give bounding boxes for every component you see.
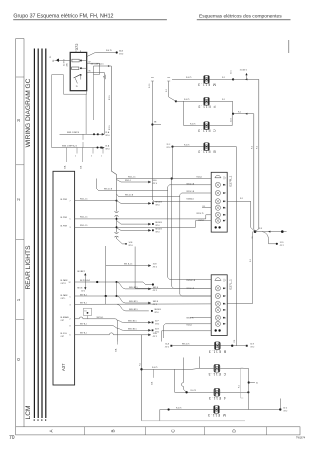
- relay coil: [72, 59, 87, 62]
- svg-text:C E11.3: C E11.3: [197, 129, 215, 133]
- svg-text:/37.2: /37.2: [81, 271, 85, 273]
- long vertical wire x111.3: [109, 66, 116, 175]
- svg-text:BL PARK: BL PARK: [61, 294, 69, 297]
- svg-text:R-1: R-1: [239, 385, 241, 388]
- svg-text:SE16 B2.5: SE16 B2.5: [129, 301, 138, 303]
- svg-text:D1: D1: [85, 310, 87, 312]
- svg-text:R-0.75: R-0.75: [190, 123, 195, 125]
- svg-text:R87-0.5 B: R87-0.5 B: [187, 191, 195, 193]
- svg-text:R141-1: R141-1: [199, 220, 205, 222]
- svg-text:F E11.3: F E11.3: [198, 104, 216, 108]
- svg-text:7: 7: [225, 220, 226, 222]
- svg-text:R-1: R-1: [240, 198, 243, 200]
- fanout branch y322.4: [117, 320, 159, 325]
- svg-text:31 A: 31 A: [105, 131, 110, 134]
- LCM pin wire row y227.3: [70, 225, 196, 229]
- svg-text:2: 2: [225, 184, 226, 186]
- branch terminal row y224.1: [117, 221, 163, 228]
- E27L pin wire labels: [187, 280, 196, 327]
- svg-text:R-0.75: R-0.75: [186, 77, 191, 79]
- svg-text:OUT L: OUT L: [61, 298, 66, 300]
- svg-text:31 C: 31 C: [167, 144, 171, 146]
- svg-text:R141-1: R141-1: [125, 180, 131, 182]
- svg-text:/37.0: /37.0: [165, 347, 169, 349]
- svg-text:BL PARK: BL PARK: [61, 279, 69, 282]
- svg-text:OUT: OUT: [61, 320, 65, 322]
- svg-text:31 E: 31 E: [153, 264, 158, 266]
- svg-text:SE16 B: SE16 B: [155, 228, 162, 230]
- stub wires below node row: [64, 142, 103, 169]
- svg-text:R-0.75: R-0.75: [184, 99, 189, 101]
- svg-text:M E11.3: M E11.3: [207, 413, 226, 417]
- wire tail lamp row 2: [175, 99, 233, 102]
- svg-text:/37.0: /37.0: [105, 149, 109, 151]
- svg-text:31: 31: [50, 55, 52, 58]
- lower-left drop vertical x161.7: [161, 331, 163, 342]
- svg-text:SE16 B: SE16 B: [155, 222, 162, 224]
- svg-text:R87-0.75: R87-0.75: [182, 344, 189, 346]
- svg-text:31A: 31A: [64, 165, 67, 169]
- svg-text:R-0.75: R-0.75: [152, 367, 157, 369]
- wire end node 14: [117, 239, 134, 247]
- svg-text:31B: 31B: [81, 165, 83, 169]
- power bus line 1: [33, 49, 35, 419]
- stub below junction wire: [151, 369, 153, 385]
- svg-text:SE16 B2.5: SE16 B2.5: [128, 328, 137, 330]
- svg-text:58 E: 58 E: [153, 180, 158, 182]
- E27L pin number labels: [225, 280, 226, 326]
- E27R row6 lamp: [215, 212, 225, 217]
- svg-text:R-1: R-1: [257, 146, 259, 149]
- svg-text:SE16 B: SE16 B: [154, 309, 161, 311]
- svg-text:A: A: [49, 428, 54, 432]
- svg-text:5: 5: [225, 310, 226, 312]
- wire tail lamp row 1: [172, 77, 233, 79]
- fanout branch y303: [115, 295, 158, 306]
- svg-text:12: 12: [69, 282, 71, 284]
- svg-text:1: 1: [225, 280, 226, 282]
- svg-text:R-1.5: R-1.5: [149, 84, 151, 88]
- svg-text:/37.0: /37.0: [119, 53, 123, 55]
- vertical wire x93.4: [93, 75, 99, 120]
- svg-text:R-0.75: R-0.75: [184, 144, 189, 146]
- svg-text:5: 5: [91, 156, 92, 158]
- svg-text:R-1: R-1: [139, 363, 141, 366]
- svg-text:7: 7: [70, 200, 71, 202]
- svg-text:31 G: 31 G: [283, 408, 287, 410]
- E27L row7 lamp: [215, 321, 225, 326]
- fanout branch y330.3: [117, 328, 159, 333]
- E27R pin number labels: [225, 177, 226, 222]
- svg-text:SE16 B: SE16 B: [155, 201, 162, 203]
- E27L row3 lamp: [215, 293, 225, 298]
- E27R row4 lamp: [215, 199, 225, 204]
- svg-text:SE7 B-1: SE7 B-1: [97, 317, 104, 319]
- harness bracket lower right: [241, 368, 244, 398]
- svg-text:6: 6: [70, 335, 71, 337]
- feeder vertical x199.4: [198, 357, 200, 369]
- svg-text:R-1: R-1: [222, 77, 225, 79]
- lamp E11.3 B lower: [214, 342, 220, 350]
- svg-text:REAR LIGHTS: REAR LIGHTS: [25, 245, 32, 290]
- svg-text:OUT: OUT: [61, 336, 65, 338]
- E27R row7 lamp: [215, 218, 225, 223]
- lamp E11.3 M lower: [214, 406, 220, 414]
- svg-text:B E11.3: B E11.3: [197, 150, 215, 154]
- svg-text:R-1.5: R-1.5: [109, 125, 111, 130]
- svg-text:BL PWR: BL PWR: [61, 226, 68, 228]
- wire lamp row 8: [160, 399, 288, 421]
- E27R pin wire labels: [187, 177, 206, 222]
- right margin mark: [288, 40, 290, 53]
- svg-text:85: 85: [89, 71, 91, 73]
- relay right pin wires to verticals: [87, 61, 105, 134]
- wire node row y134.3: [60, 131, 110, 140]
- crossover vertical x174.6: [174, 369, 176, 392]
- svg-text:/37.0: /37.0: [155, 225, 159, 227]
- svg-text:R-1: R-1: [250, 259, 252, 262]
- svg-text:2: 2: [70, 319, 71, 321]
- svg-text:B E11.3: B E11.3: [208, 349, 226, 353]
- svg-text:2: 2: [75, 156, 76, 158]
- E27R row1 bulb symbol: [215, 175, 224, 179]
- fanout branch y289: [115, 281, 158, 292]
- svg-text:R-1: R-1: [203, 206, 206, 208]
- svg-text:R87-0.5 B: R87-0.5 B: [104, 189, 113, 191]
- svg-text:/37.2: /37.2: [250, 347, 254, 349]
- right vertical lower: [248, 368, 258, 409]
- svg-text:31A: 31A: [114, 348, 117, 352]
- svg-text:/37.2: /37.2: [153, 336, 157, 338]
- control unit A37 body: [53, 171, 75, 385]
- feeder row y196.5: [117, 194, 180, 197]
- svg-text:SB COMP B-1.5: SB COMP B-1.5: [91, 64, 104, 66]
- svg-text:SE7 B-1: SE7 B-1: [80, 323, 87, 325]
- svg-text:BL BRAKE: BL BRAKE: [61, 316, 70, 319]
- feeder vertical x168.7: [166, 81, 176, 101]
- svg-text:/37.2: /37.2: [243, 70, 247, 72]
- feeder drop x96.5 to ladder: [97, 179, 168, 191]
- svg-text:SE7 B-1: SE7 B-1: [80, 303, 87, 305]
- svg-text:31B: 31B: [151, 381, 153, 385]
- svg-text:4: 4: [225, 303, 226, 305]
- E27L row2 lamp: [215, 286, 225, 291]
- svg-text:R-B5B2-1: R-B5B2-1: [187, 198, 194, 200]
- svg-text:R141-1.5: R141-1.5: [128, 176, 135, 178]
- wire node row y147.7: [52, 145, 110, 151]
- LCM pin wire row y334.8: [70, 332, 158, 352]
- svg-text:1: 1: [101, 156, 102, 158]
- svg-text:R141-1: R141-1: [187, 325, 193, 327]
- lamp E11.3 F: [204, 97, 210, 105]
- bottom ruler row: [16, 427, 300, 435]
- LCM pin wire row y296.9: [70, 295, 212, 305]
- svg-text:SE16 B2.5: SE16 B2.5: [128, 320, 137, 322]
- relay pin stub top: [75, 50, 77, 52]
- E27L row6 lamp: [215, 315, 225, 320]
- power bus line 2: [37, 49, 39, 419]
- wire row2 to junction 2: [231, 101, 254, 122]
- bus top labels: [50, 55, 59, 62]
- svg-text:WIRING DIAGRAM GC: WIRING DIAGRAM GC: [25, 78, 32, 147]
- svg-text:R-1: R-1: [234, 340, 236, 343]
- svg-text:C E11.3: C E11.3: [208, 372, 226, 376]
- svg-text:3: 3: [70, 227, 71, 229]
- svg-text:31 F: 31 F: [155, 320, 160, 322]
- wire lamp row 6: [142, 367, 249, 369]
- svg-text:30 A: 30 A: [119, 49, 124, 52]
- header left title: [13, 13, 167, 20]
- relay output wire to node 30: [87, 49, 124, 56]
- svg-text:SB31 COMP B: SB31 COMP B: [67, 132, 80, 134]
- svg-text:R-1: R-1: [238, 112, 241, 114]
- svg-text:7: 7: [225, 323, 226, 325]
- bus bottom pin marks: [34, 419, 47, 421]
- right vertical wire A: [258, 79, 260, 229]
- svg-text:14 E: 14 E: [129, 242, 134, 244]
- ground branch curved: [262, 232, 284, 247]
- corner wire from E27R to ground node: [227, 198, 255, 231]
- svg-text:SE1 B: SE1 B: [77, 287, 83, 289]
- svg-text:R-1.5: R-1.5: [109, 95, 111, 100]
- svg-text:3: 3: [225, 193, 226, 195]
- E27R row5 lamp: [215, 205, 225, 210]
- relay left pin wire: [55, 59, 71, 67]
- lamp E11.3 4 lower: [214, 388, 220, 396]
- svg-text:SE POS B-2: SE POS B-2: [80, 280, 90, 282]
- svg-text:206: 206: [66, 63, 68, 66]
- fuse reference arrow up: [77, 271, 86, 282]
- svg-text:372: 372: [74, 43, 79, 50]
- wire tail lamp row 3: [184, 101, 233, 125]
- svg-text:SE1 B-1.5: SE1 B-1.5: [124, 264, 132, 266]
- svg-text:/37.2: /37.2: [153, 290, 157, 292]
- svg-text:R141-1.5: R141-1.5: [80, 198, 87, 200]
- svg-text:R87-0.75: R87-0.75: [197, 213, 204, 215]
- svg-text:3: 3: [70, 305, 71, 307]
- svg-text:E27R_1: E27R_1: [229, 175, 233, 186]
- ground drop to E27L row4: [227, 232, 252, 304]
- right vertical wire B: [253, 114, 255, 229]
- svg-text:BL PWR: BL PWR: [61, 217, 68, 219]
- svg-text:R-1: R-1: [166, 89, 168, 92]
- svg-text:D: D: [232, 429, 237, 433]
- svg-text:/37.0: /37.0: [105, 135, 109, 137]
- feeder from x152.4 down to E27R row4: [152, 132, 154, 201]
- svg-text:R-0.75: R-0.75: [106, 50, 112, 52]
- svg-text:31 A: 31 A: [105, 145, 110, 148]
- svg-text:/37.0: /37.0: [155, 205, 159, 207]
- svg-text:31 F: 31 F: [259, 228, 263, 230]
- svg-text:E27L_1: E27L_1: [229, 279, 233, 290]
- svg-text:4: 4: [225, 201, 226, 203]
- A37 internal pin function labels: [61, 199, 70, 338]
- wire tail lamp row 5: [172, 344, 254, 349]
- svg-text:0: 0: [16, 358, 21, 361]
- relay switch contact: [74, 74, 82, 88]
- top right terminal arrow: [240, 70, 248, 80]
- feeder vertical x152.4: [149, 81, 161, 132]
- svg-text:SE16 B2.5: SE16 B2.5: [129, 287, 138, 289]
- svg-text:3: 3: [225, 296, 226, 298]
- lower cluster feed terminal 31A: [165, 343, 172, 349]
- inter-cluster vertical x167.7: [168, 187, 212, 280]
- svg-text:31 D: 31 D: [280, 242, 284, 244]
- svg-text:8: 8: [70, 325, 71, 327]
- svg-text:5: 5: [70, 297, 71, 299]
- svg-text:/37.0: /37.0: [154, 312, 158, 314]
- connector block E27R body: [211, 172, 227, 232]
- E27R pin wires left: [152, 185, 211, 228]
- svg-text:/37.0: /37.0: [129, 245, 133, 247]
- feeder top ticks: [151, 78, 170, 81]
- wire tail lamp row 4: [166, 144, 236, 346]
- border frame left ruler column: [16, 39, 24, 427]
- E27R row3 lamp: [215, 190, 225, 195]
- node wire y66 with labels: [91, 64, 112, 75]
- svg-text:BL PWR: BL PWR: [61, 199, 68, 201]
- svg-text:2: 2: [225, 288, 226, 290]
- E27L bottom pins: [215, 329, 221, 331]
- svg-text:/37.2: /37.2: [153, 304, 157, 306]
- svg-text:A37: A37: [61, 363, 66, 371]
- svg-text:/37.2: /37.2: [155, 324, 159, 326]
- svg-text:Esquemas elétricos dos compone: Esquemas elétricos dos componentes: [199, 13, 282, 19]
- svg-text:SE1 B: SE1 B: [153, 287, 159, 289]
- branch terminal row y203.4: [117, 201, 163, 207]
- lamp E11.3 M: [204, 76, 210, 84]
- E27R bottom pins: [215, 226, 221, 228]
- inline connector pair upper: [115, 211, 119, 216]
- junction node row1: [232, 78, 234, 80]
- pin stub 14: [104, 75, 106, 80]
- LCM vertical distribution wire x116.5: [116, 175, 118, 239]
- wire from LCM area to E27R row1: [117, 178, 212, 180]
- lamp E11.3 C lower: [214, 364, 220, 372]
- LCM pin wire row y282: [69, 280, 212, 289]
- svg-text:SE7 B-1: SE7 B-1: [80, 295, 87, 297]
- svg-text:5: 5: [225, 207, 226, 209]
- inline connector pair lower: [115, 232, 119, 237]
- svg-text:/37.2: /37.2: [280, 245, 284, 247]
- svg-text:B: B: [111, 429, 116, 432]
- LCM pin wire row y218.9: [70, 217, 206, 221]
- svg-text:N8: N8: [154, 122, 156, 124]
- ground junction node 31: [254, 229, 259, 233]
- svg-text:31 A: 31 A: [165, 343, 169, 346]
- svg-text:R141-0.5 B: R141-0.5 B: [187, 280, 196, 282]
- svg-text:R-0.75: R-0.75: [191, 390, 196, 392]
- svg-text:3: 3: [16, 119, 21, 122]
- svg-text:R87-0.5 B: R87-0.5 B: [187, 184, 195, 186]
- inter-cluster vertical x171.7: [172, 179, 212, 289]
- E27R row2 lamp: [215, 182, 225, 187]
- connector block E27L body: [211, 275, 227, 336]
- svg-text:SB31 COMP B-2.5: SB31 COMP B-2.5: [62, 145, 77, 147]
- E27L row1 bulb symbol: [215, 278, 224, 282]
- svg-text:31 C: 31 C: [231, 70, 233, 74]
- relay 372 body: [70, 52, 87, 90]
- fanout branch y311: [117, 304, 162, 314]
- wire lamp row 7: [175, 390, 250, 393]
- branch terminal row y182: [117, 180, 158, 186]
- LCM pin wire row y325.5: [70, 323, 118, 328]
- svg-text:SE16 B2.5: SE16 B2.5: [129, 309, 138, 311]
- svg-text:SE7 B-1: SE7 B-1: [80, 333, 87, 335]
- svg-text:15: 15: [76, 86, 78, 88]
- svg-text:LCM: LCM: [25, 406, 32, 420]
- svg-text:R87-0.75: R87-0.75: [187, 318, 194, 320]
- svg-text:BL FOG: BL FOG: [61, 333, 68, 335]
- svg-text:/37.0: /37.0: [153, 183, 157, 185]
- svg-text:TW1674: TW1674: [296, 437, 306, 440]
- svg-text:R-1: R-1: [222, 99, 225, 101]
- svg-text:/37.2: /37.2: [153, 267, 157, 269]
- svg-text:14: 14: [104, 76, 106, 78]
- svg-text:C: C: [171, 429, 176, 433]
- svg-text:SE1 B: SE1 B: [153, 301, 159, 303]
- lower cluster main vertical: [139, 335, 142, 421]
- svg-text:R-0.75: R-0.75: [176, 407, 181, 409]
- svg-text:M E11.3: M E11.3: [197, 82, 216, 86]
- svg-text:31 E: 31 E: [155, 328, 160, 330]
- svg-text:1: 1: [225, 177, 226, 179]
- distribution vertical x116.5 lower: [116, 282, 118, 296]
- power bus line 3: [41, 49, 43, 419]
- svg-text:4 E11.3: 4 E11.3: [208, 396, 226, 400]
- power bus line 4: [45, 49, 47, 419]
- LCM pin wire row y200.6: [70, 198, 118, 202]
- svg-text:/37.2: /37.2: [283, 411, 287, 413]
- fanout row y265.6: [106, 246, 158, 295]
- svg-text:/37.2: /37.2: [155, 331, 159, 333]
- ground terminal wire right: [252, 228, 287, 238]
- svg-text:5: 5: [70, 219, 71, 221]
- E27L row4 lamp: [215, 301, 225, 306]
- E27L row5 lamp: [215, 307, 225, 312]
- E27L pin wires left: [162, 324, 212, 331]
- svg-text:Grupo 37 Esquema elétrico FM,: Grupo 37 Esquema elétrico FM, FH, NH12: [13, 13, 113, 19]
- lamp E11.3 C: [204, 122, 210, 130]
- lower cluster bottom wire: [142, 420, 246, 422]
- svg-text:6: 6: [225, 317, 226, 319]
- lamp row4 drop wire: [172, 147, 174, 179]
- svg-text:R141-1.5: R141-1.5: [80, 217, 87, 219]
- relay resistor element: [72, 67, 87, 70]
- lamp E11.3 B: [204, 143, 210, 151]
- svg-text:R87-0.5 B: R87-0.5 B: [125, 195, 134, 197]
- header right title: [197, 13, 291, 20]
- svg-text:/37.2: /37.2: [81, 290, 85, 292]
- crossover vertical x183.4: [181, 358, 186, 393]
- diode component above pin row: [84, 308, 92, 319]
- svg-text:2: 2: [16, 198, 21, 201]
- svg-text:31 E: 31 E: [250, 344, 254, 346]
- ground drop to lower cluster: [234, 340, 236, 343]
- svg-text:/37.0: /37.0: [155, 232, 159, 234]
- inter-cluster vertical x179.8: [180, 195, 211, 296]
- distribution vertical x135: [134, 247, 136, 289]
- svg-text:R141-1.5: R141-1.5: [80, 225, 87, 227]
- svg-text:R-1: R-1: [252, 146, 254, 149]
- LCM pin wire row y318.8: [70, 317, 118, 342]
- LCM pin wire row y304.9: [70, 303, 212, 307]
- wire row1 to right bus: [231, 70, 259, 81]
- E27R row1 feed junction: [171, 177, 173, 179]
- branch terminal row y230.4: [117, 228, 163, 234]
- svg-text:OUT R: OUT R: [61, 283, 67, 285]
- svg-text:6: 6: [225, 214, 226, 216]
